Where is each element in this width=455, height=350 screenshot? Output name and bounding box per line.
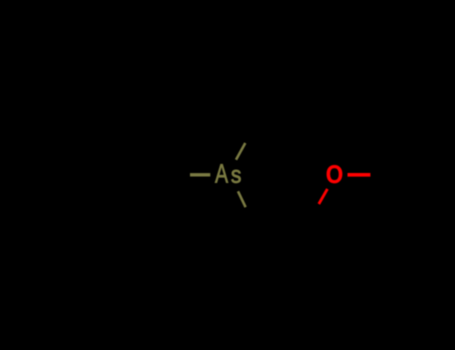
- bond phenyl-As (olive half bond, horizontal): [190, 173, 210, 176]
- atom label As (letter s): [231, 170, 240, 183]
- bond C aryl-O (red half bond, diagonal down-left): [319, 189, 328, 204]
- bond O-CH2 (red half bond, horizontal): [348, 173, 371, 177]
- bond As-C upper (olive half bond, diagonal up-right): [236, 143, 245, 160]
- atom label As (letter A): [215, 164, 228, 182]
- atom label O (red, bold): [327, 165, 343, 183]
- bond As-C aryl lower (olive half bond, diagonal down-right): [238, 191, 246, 207]
